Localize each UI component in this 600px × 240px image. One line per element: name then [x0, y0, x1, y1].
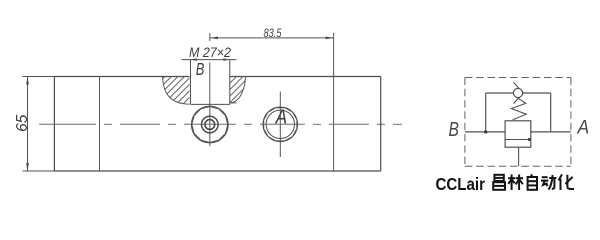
arrowhead 65 bottom	[26, 163, 29, 171]
dimension line 65 with extension lines	[23, 77, 55, 172]
hanzi 动	[541, 175, 556, 190]
port B vertical centerline upper segment	[209, 33, 211, 41]
svg-text:A: A	[275, 105, 287, 128]
hanzi 林	[508, 174, 523, 190]
svg-text:M 27×2: M 27×2	[189, 45, 231, 60]
port A polygon outline	[264, 108, 297, 141]
logo hanzi 昌林自动化 drawn as strokes	[493, 174, 574, 190]
dimension line M27x2	[182, 59, 237, 61]
arrowhead 83.5 right	[326, 37, 334, 40]
svg-text:83.5: 83.5	[264, 26, 282, 40]
port B plug hex outline	[192, 107, 228, 143]
wire port B to valve	[465, 131, 505, 133]
spring of relief valve V1	[511, 98, 526, 120]
block edge line left	[99, 77, 101, 172]
pilot line inside V1	[505, 139, 530, 141]
port A outer circle	[263, 107, 298, 142]
svg-text:65: 65	[14, 114, 31, 132]
hanzi 化	[559, 174, 574, 190]
horizontal centerline (dash-dot) through ports	[39, 123, 402, 125]
arrowhead M27x2 right	[223, 58, 230, 61]
port A vertical centerline	[279, 92, 281, 158]
block edge line right (also extension of 83.5 dimension)	[333, 33, 335, 171]
relief valve V1 body	[505, 121, 531, 147]
svg-text:A: A	[577, 116, 590, 138]
section hatching left lobe	[163, 77, 190, 105]
svg-text:CCLair: CCLair	[436, 174, 486, 194]
arrowhead 83.5 left	[210, 37, 218, 40]
svg-text:B: B	[196, 60, 205, 80]
port B vertical centerline	[209, 63, 211, 147]
bypass wire (left riser, top run, right riser)	[486, 93, 551, 132]
valve block outline	[54, 77, 380, 172]
enclosure (dashed boundary)	[465, 78, 571, 167]
port B plug outer circle	[191, 106, 228, 143]
section hatching right lobe	[230, 77, 246, 103]
port B threaded bore (section)	[191, 60, 230, 105]
hanzi 自	[528, 174, 537, 189]
arrowhead M27x2 left	[191, 58, 198, 61]
junction node at B branch	[484, 130, 487, 133]
check valve V2 ball	[513, 88, 522, 97]
check valve V2 seat	[514, 82, 524, 103]
wire valve to port A	[531, 131, 571, 133]
hanzi 昌	[493, 175, 505, 190]
port A inner circle	[266, 110, 294, 138]
arrowhead 65 top	[26, 77, 29, 85]
port B plug socket ring	[202, 116, 219, 133]
dimension line 83.5	[210, 37, 334, 39]
pilot junction dot	[528, 138, 531, 141]
svg-text:B: B	[449, 118, 459, 140]
drain wire	[518, 147, 520, 166]
